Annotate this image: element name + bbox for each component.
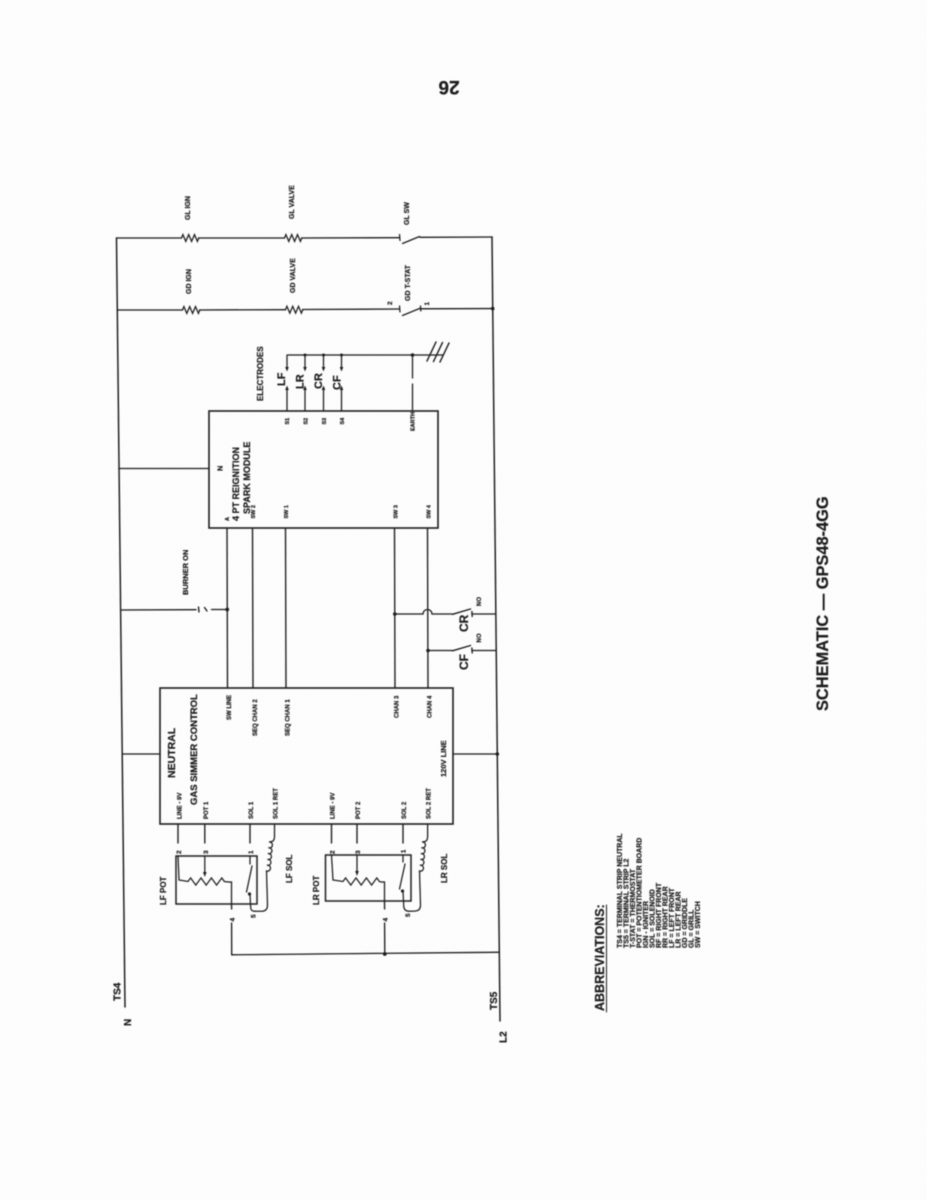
svg-text:LF: LF <box>276 372 288 386</box>
svg-text:4 PT REIGNITION: 4 PT REIGNITION <box>231 447 241 521</box>
svg-text:CF: CF <box>332 375 344 390</box>
junction S4/top line <box>340 354 343 357</box>
wire pot1 pin2 <box>177 824 179 843</box>
junction A/burner <box>225 608 229 612</box>
switch GL SW <box>400 235 420 244</box>
wire L2 rail right (TS5 vertical) <box>492 237 500 1021</box>
svg-text:1: 1 <box>424 302 431 306</box>
svg-text:LINE - 9V: LINE - 9V <box>178 793 184 819</box>
electrode LR gap <box>303 355 307 411</box>
svg-text:GD T-STAT: GD T-STAT <box>405 264 412 301</box>
svg-text:LINE - 9V: LINE - 9V <box>331 793 337 819</box>
solenoid LR SOL <box>409 824 428 911</box>
svg-text:SW = SWITCH: SW = SWITCH <box>695 901 702 948</box>
junction LR pin4/bus <box>383 952 387 956</box>
svg-text:NO: NO <box>477 633 483 642</box>
svg-text:26: 26 <box>438 76 459 97</box>
svg-text:3: 3 <box>203 850 210 854</box>
wire SW4 vertical <box>427 528 430 688</box>
svg-text:TS5: TS5 <box>489 991 500 1010</box>
wire EARTH <box>412 355 414 378</box>
svg-text:2: 2 <box>176 850 183 854</box>
resistor GL IGN <box>182 235 199 242</box>
junction CR/SW3 <box>393 612 397 616</box>
svg-text:1: 1 <box>248 850 255 854</box>
svg-text:SOL 2: SOL 2 <box>402 801 408 819</box>
wire bottom bus <box>232 952 500 955</box>
svg-text:TS4: TS4 <box>113 982 124 1001</box>
svg-text:5: 5 <box>251 914 258 918</box>
svg-text:GL SW: GL SW <box>404 202 411 225</box>
svg-text:GD IGN: GD IGN <box>186 269 193 294</box>
junction S2/top line <box>304 354 307 357</box>
junction EARTH/top line <box>411 353 415 357</box>
svg-text:BURNER ON: BURNER ON <box>181 550 190 595</box>
switch CF <box>428 646 496 654</box>
svg-text:S2: S2 <box>304 418 310 425</box>
svg-text:N: N <box>216 466 225 471</box>
svg-text:SW LINE: SW LINE <box>227 695 233 720</box>
wire pot2 pin2 <box>331 824 333 843</box>
wire N to module <box>119 468 209 470</box>
resistor GL VALVE <box>285 235 302 242</box>
wire pot1 pin1 <box>249 824 251 843</box>
svg-text:ABBREVIATIONS:: ABBREVIATIONS: <box>593 904 607 1011</box>
svg-text:N: N <box>123 1019 134 1026</box>
junction CF/SW4 <box>426 649 430 653</box>
svg-text:LR SOL: LR SOL <box>440 854 449 883</box>
abbreviation list <box>617 833 702 948</box>
svg-text:A: A <box>225 517 231 521</box>
svg-text:2: 2 <box>387 301 394 305</box>
svg-text:2: 2 <box>330 850 337 854</box>
wire 120V to rail <box>453 753 497 755</box>
svg-text:CR: CR <box>313 373 325 389</box>
resistor pot element LF <box>178 856 232 904</box>
switch in LR POT <box>400 855 406 901</box>
electrode LF gap <box>285 355 289 411</box>
solenoid LF SOL <box>255 824 275 911</box>
svg-text:3: 3 <box>355 850 362 854</box>
wire LR pin4 <box>384 901 386 909</box>
wire GD line <box>117 309 493 310</box>
svg-text:LF SOL: LF SOL <box>285 854 294 883</box>
svg-text:SW 1: SW 1 <box>284 505 290 518</box>
svg-text:POT 1: POT 1 <box>204 801 210 819</box>
wire pot2 pin1 <box>402 824 404 843</box>
junction S3/top line <box>322 354 325 357</box>
svg-text:SW 3: SW 3 <box>394 505 400 518</box>
ground earth symbol <box>427 342 449 362</box>
svg-text:S4: S4 <box>340 417 346 425</box>
svg-text:120V LINE: 120V LINE <box>439 740 448 777</box>
junction GD/rail <box>491 307 495 311</box>
svg-text:S1: S1 <box>285 418 291 425</box>
switch GD T-STAT <box>400 306 421 316</box>
svg-text:POT 2: POT 2 <box>356 801 362 819</box>
svg-text:L2: L2 <box>499 1031 510 1043</box>
svg-text:GL IGN: GL IGN <box>185 196 192 220</box>
gas simmer control box U2 <box>160 688 453 824</box>
pot box LR POT <box>326 855 412 901</box>
svg-text:CR: CR <box>457 614 471 632</box>
svg-text:LR POT: LR POT <box>312 876 321 905</box>
wire electrode top line <box>288 354 443 356</box>
pot box LF POT <box>176 856 257 904</box>
svg-text:NO: NO <box>477 597 483 606</box>
svg-text:CF: CF <box>457 654 471 670</box>
wire N rail left (TS4 vertical) <box>117 238 126 1007</box>
svg-text:CHAN 4: CHAN 4 <box>428 695 434 718</box>
svg-text:LF POT: LF POT <box>159 876 168 905</box>
svg-text:NEUTRAL: NEUTRAL <box>166 727 178 778</box>
switch in LF POT <box>247 856 253 904</box>
wire neutral to box <box>122 753 160 755</box>
resistor GD IGN <box>183 307 200 314</box>
svg-text:SPARK MODULE: SPARK MODULE <box>242 442 252 514</box>
wire LR pin5 hook <box>404 901 410 911</box>
svg-text:LR: LR <box>295 374 307 389</box>
electrode CR gap <box>322 355 326 411</box>
wire LF pin4 <box>231 904 233 909</box>
wire SW3 vertical <box>394 528 397 688</box>
svg-text:SOL 2 RET: SOL 2 RET <box>427 788 433 819</box>
svg-text:S3: S3 <box>322 418 328 425</box>
junction 120V/rail <box>496 752 500 756</box>
svg-text:SEQ CHAN 1: SEQ CHAN 1 <box>286 699 292 736</box>
op-amp spark module box U1 <box>209 411 438 528</box>
switch BURNER ON <box>121 607 227 612</box>
svg-text:GL VALVE: GL VALVE <box>289 185 296 219</box>
svg-text:GAS SIMMER CONTROL: GAS SIMMER CONTROL <box>189 694 200 805</box>
svg-text:SOL 1 RET: SOL 1 RET <box>274 788 280 819</box>
wire pot2 pin3 <box>356 824 358 843</box>
svg-text:CHAN 3: CHAN 3 <box>395 695 401 718</box>
wiper arrow LR <box>356 855 358 871</box>
svg-text:GD VALVE: GD VALVE <box>290 258 297 293</box>
wire SW1 vertical <box>285 528 288 688</box>
resistor pot element LR <box>332 855 385 901</box>
wiper arrow LF <box>204 856 206 872</box>
svg-text:4: 4 <box>230 918 237 922</box>
svg-text:SCHEMATIC — GPS48-4GG: SCHEMATIC — GPS48-4GG <box>814 496 832 711</box>
wire SW2 vertical <box>252 528 255 688</box>
svg-text:ELECTRODES: ELECTRODES <box>256 346 265 401</box>
wire pot1 pin3 <box>204 824 206 843</box>
svg-text:SW 4: SW 4 <box>427 504 433 518</box>
wire GL line top <box>117 237 493 238</box>
svg-text:EARTH: EARTH <box>411 412 417 431</box>
svg-text:SEQ CHAN 2: SEQ CHAN 2 <box>253 699 259 736</box>
resistor GD VALVE <box>286 306 303 313</box>
wire A vertical <box>226 528 229 688</box>
svg-text:5: 5 <box>405 913 412 917</box>
electrode CF gap <box>340 355 344 411</box>
svg-text:SOL 1: SOL 1 <box>249 801 255 819</box>
wire LF pin5 hook <box>251 904 256 911</box>
switch CR <box>395 609 496 617</box>
svg-text:SW 2: SW 2 <box>251 505 257 518</box>
svg-text:4: 4 <box>383 918 390 922</box>
